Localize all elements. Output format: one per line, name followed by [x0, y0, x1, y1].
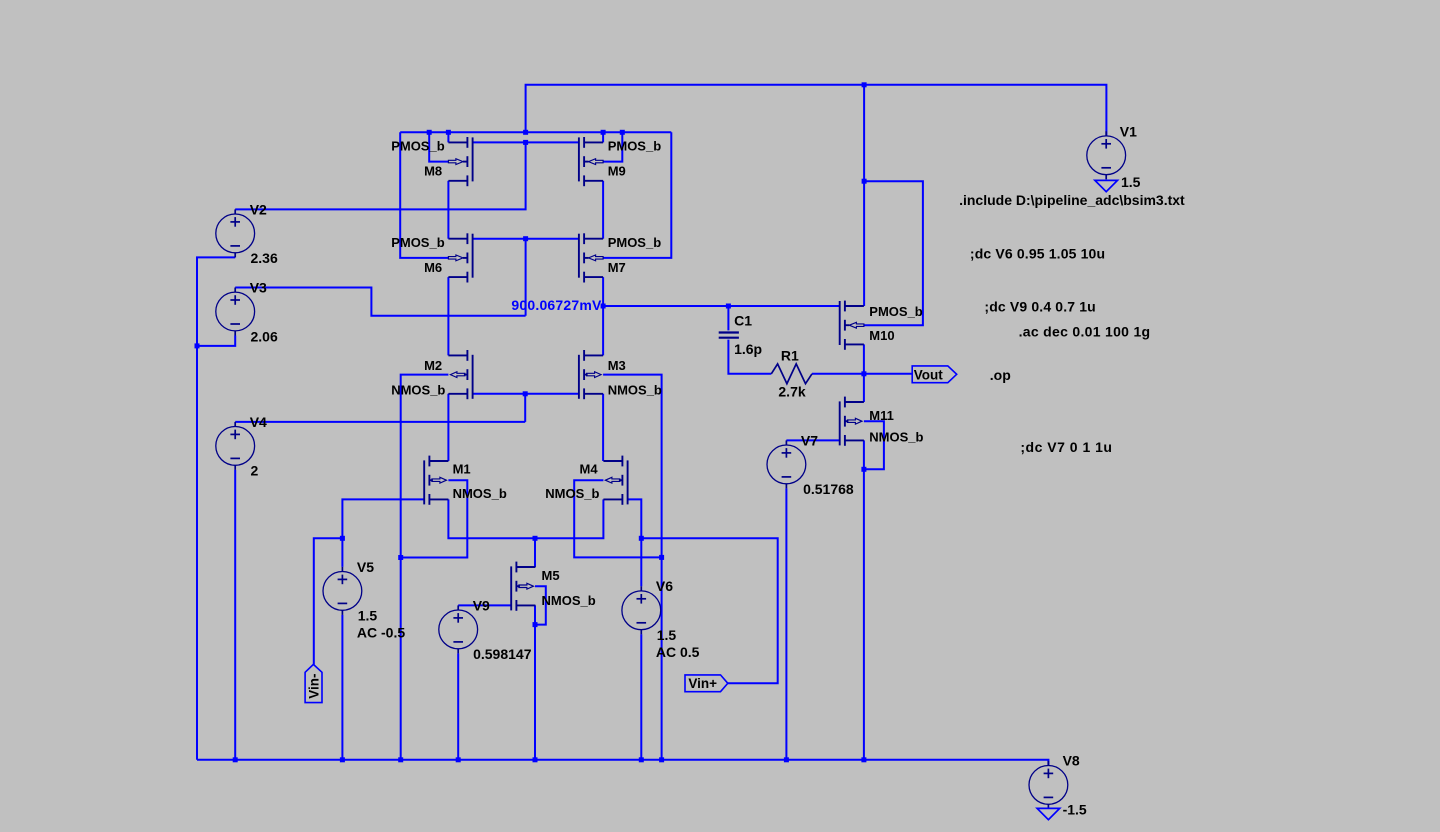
wire M4 bulk loop: [574, 480, 661, 557]
junction tail node M5 drain: [533, 536, 538, 541]
transistor M1 NMOS_b: [424, 456, 448, 505]
wire PMOS source rail: [400, 131, 671, 133]
svg-text:2.36: 2.36: [251, 250, 278, 266]
wire M1 gate to V5/Vin-: [342, 499, 424, 538]
junction ground rail at V5: [340, 757, 345, 762]
junction V3 bottom at left vertical: [195, 343, 200, 348]
svg-text:M2: M2: [424, 358, 442, 373]
voltage source V8: [1029, 761, 1068, 809]
wire C1 top lead: [727, 306, 729, 330]
voltage source V9: [439, 605, 478, 653]
wire M9 source drop: [602, 132, 604, 142]
svg-text:M1: M1: [453, 461, 471, 476]
svg-text:1.5: 1.5: [1121, 174, 1141, 190]
port Vout: [912, 366, 957, 383]
wire M7 bulk from rail right side: [603, 132, 671, 258]
wire M10 drain to Vout node: [863, 344, 865, 373]
svg-text:M7: M7: [608, 260, 626, 275]
junction M1 gate / V5 / Vin-: [340, 536, 345, 541]
svg-text:R1: R1: [781, 347, 799, 363]
svg-text:M11: M11: [869, 408, 894, 423]
wire V7 bottom: [785, 488, 787, 759]
junction M4 gate / V6 / Vin+: [639, 536, 644, 541]
wire M2 bulk down: [401, 375, 449, 760]
svg-text:Vout: Vout: [914, 367, 943, 382]
wire M4 source to tail node: [535, 499, 603, 538]
svg-text:NMOS_b: NMOS_b: [542, 593, 596, 608]
svg-text:.op: .op: [990, 367, 1011, 383]
wire to Vin+ port: [641, 538, 777, 683]
wire V5 bottom: [341, 615, 343, 760]
transistor M4 NMOS_b: [603, 456, 627, 505]
svg-text:PMOS_b: PMOS_b: [608, 139, 662, 154]
svg-text:M10: M10: [869, 328, 894, 343]
wire to Vin- port: [314, 538, 343, 664]
svg-text:V6: V6: [656, 578, 673, 594]
wire R1 to Vout node: [812, 373, 864, 375]
wire ground rail bottom: [197, 760, 1048, 766]
wire M1 bulk loop: [401, 480, 468, 557]
wire M8 drain to M6 source: [447, 181, 449, 239]
svg-text:V1: V1: [1120, 124, 1137, 140]
port Vin-: [305, 664, 322, 702]
wire M9 bulk connection: [603, 132, 622, 161]
transistor M8 PMOS_b: [448, 137, 472, 186]
wire M6-M7 gate rail: [473, 238, 579, 240]
ground symbol V8: [1037, 808, 1060, 819]
wire V4 to M2/M3 gates: [235, 421, 525, 423]
junction node 900mV at M7/M3 column: [601, 304, 606, 309]
wire VDD top rail from internal rail tap to V1: [526, 85, 1107, 136]
wire M6 bulk from rail left side: [400, 132, 448, 258]
wire M3 bulk down right side: [603, 375, 662, 760]
junction M2 bulk / M1 bulk / rail drop: [398, 555, 403, 560]
transistor M5 NMOS_b: [511, 562, 535, 611]
wire M11 source down to rail: [863, 440, 865, 759]
wire V2 bottom to left vertical: [197, 257, 235, 759]
svg-text:PMOS_b: PMOS_b: [391, 235, 445, 250]
junction Vout node: [861, 371, 866, 376]
port Vin+: [685, 675, 728, 692]
transistor M11 NMOS_b: [840, 397, 864, 446]
svg-text:-1.5: -1.5: [1063, 802, 1087, 818]
svg-text:M4: M4: [580, 461, 599, 476]
wire V3 tap down: [525, 239, 527, 316]
voltage source V3: [216, 288, 255, 336]
junction ground rail at V4: [233, 757, 238, 762]
svg-text:;dc V9 0.4 0.7 1u: ;dc V9 0.4 0.7 1u: [984, 299, 1096, 315]
voltage source V5: [323, 567, 362, 615]
wire M5 drain up to tail node: [534, 538, 536, 567]
wire V6 bottom: [640, 634, 642, 760]
svg-text:2.06: 2.06: [251, 328, 278, 344]
junction top rail to M10 branch: [862, 82, 867, 87]
wire M3 source to M4 drain: [602, 394, 604, 461]
svg-text:NMOS_b: NMOS_b: [545, 486, 599, 501]
voltage source V2: [216, 209, 255, 257]
junction M8 bulk at rail: [427, 130, 432, 135]
svg-text:V8: V8: [1063, 752, 1080, 768]
transistor M7 PMOS_b: [579, 233, 603, 282]
junction ground rail at V7: [784, 757, 789, 762]
svg-text:V3: V3: [250, 279, 267, 295]
wire V3 to M6/M7 gates: [235, 288, 525, 316]
junction ground rail at M11: [861, 757, 866, 762]
svg-text:V7: V7: [801, 432, 818, 448]
svg-text:AC -0.5: AC -0.5: [357, 625, 405, 641]
junction ground rail at V9: [456, 757, 461, 762]
svg-text:.include D:\pipeline_adc\bsim3: .include D:\pipeline_adc\bsim3.txt: [959, 192, 1185, 208]
svg-text:NMOS_b: NMOS_b: [391, 383, 445, 398]
junction gate rail V4 tap: [523, 391, 528, 396]
voltage source V7: [767, 440, 806, 488]
svg-text:1.5: 1.5: [358, 608, 378, 624]
junction gate rail V3 tap: [523, 236, 528, 241]
svg-text:PMOS_b: PMOS_b: [608, 235, 662, 250]
wire M10 supply branch down from top rail: [863, 85, 865, 306]
wire M7 drain to M3 drain: [602, 277, 604, 355]
transistor M2 NMOS_b: [448, 350, 472, 399]
wire V9 bottom: [457, 653, 459, 759]
svg-text:M9: M9: [608, 164, 626, 179]
svg-text:Vin-: Vin-: [307, 674, 322, 699]
transistor M3 NMOS_b: [579, 350, 603, 399]
svg-text:;dc V6 0.95 1.05 10u: ;dc V6 0.95 1.05 10u: [970, 245, 1105, 261]
wire M6 drain to M2 drain: [447, 277, 449, 355]
wire V4 bottom to ground rail: [234, 470, 236, 760]
wire output node to M10 gate: [603, 305, 840, 307]
svg-text:NMOS_b: NMOS_b: [608, 383, 662, 398]
wire V6 top: [640, 538, 642, 586]
junction M4 bulk join: [659, 555, 664, 560]
svg-text:0.51768: 0.51768: [803, 481, 854, 497]
junction C1 tap on node wire: [726, 304, 731, 309]
svg-text:V5: V5: [357, 559, 374, 575]
svg-text:V4: V4: [250, 414, 267, 430]
wire M11 drain to Vout node: [863, 374, 865, 402]
svg-text:.ac dec 0.01 100 1g: .ac dec 0.01 100 1g: [1019, 324, 1151, 340]
svg-text:M6: M6: [424, 260, 442, 275]
svg-text:PMOS_b: PMOS_b: [391, 139, 445, 154]
svg-text:1.5: 1.5: [657, 627, 677, 643]
resistor R1: [771, 364, 812, 384]
wire Vout node to port: [864, 373, 913, 375]
svg-text:2: 2: [251, 463, 259, 479]
svg-text:1.6p: 1.6p: [734, 341, 762, 357]
transistor M9 PMOS_b: [579, 137, 603, 186]
wire M2 source to M1 drain: [447, 394, 449, 461]
voltage source V6: [622, 586, 661, 634]
svg-text:M3: M3: [608, 358, 626, 373]
junction ground rail at M3 bulk: [659, 757, 664, 762]
voltage source V1: [1087, 131, 1126, 179]
wire V4 tap down: [524, 394, 526, 422]
svg-text:M5: M5: [542, 568, 560, 583]
junction M9 source at rail: [601, 130, 606, 135]
svg-text:AC 0.5: AC 0.5: [656, 644, 700, 660]
junction M9 bulk at rail: [620, 130, 625, 135]
junction M11 bulk join: [861, 467, 866, 472]
voltage source V4: [216, 422, 255, 470]
transistor M10 PMOS_b: [840, 301, 864, 350]
wire V2 to M8/M9 gates: [235, 142, 525, 209]
wire M8-M9 gate rail: [473, 141, 579, 143]
junction M5 source/bulk: [533, 622, 538, 627]
junction ground rail at M5: [533, 757, 538, 762]
svg-text:;dc V7 0 1 1u: ;dc V7 0 1 1u: [1020, 439, 1112, 455]
ground symbol V1: [1095, 180, 1118, 191]
wire M5 source down to rail: [534, 605, 536, 759]
junction M10 bulk loop top: [862, 179, 867, 184]
wire M10 bulk loop: [864, 181, 923, 325]
wire V5 top: [341, 538, 343, 567]
svg-text:C1: C1: [734, 313, 752, 329]
junction gate rail V2 tap: [523, 140, 528, 145]
wire M4 gate to V6/Vin+: [627, 499, 641, 538]
svg-text:M8: M8: [424, 164, 442, 179]
junction M8 source at rail: [446, 130, 451, 135]
svg-text:NMOS_b: NMOS_b: [869, 430, 923, 445]
svg-text:900.06727mV: 900.06727mV: [511, 297, 602, 313]
wire M8 bulk connection: [429, 132, 448, 161]
wire M2-M3 gate rail: [473, 393, 579, 395]
wire M5 gate to V9: [458, 604, 511, 606]
svg-text:PMOS_b: PMOS_b: [869, 304, 923, 319]
capacitor C1: [719, 333, 739, 338]
wire M1 source down to tail node: [448, 499, 535, 538]
svg-text:V9: V9: [473, 597, 490, 613]
transistor M6 PMOS_b: [448, 233, 472, 282]
wire M11 bulk loop: [864, 421, 884, 469]
wire M9 drain to M7 source: [602, 181, 604, 239]
svg-text:V2: V2: [250, 201, 267, 217]
svg-text:NMOS_b: NMOS_b: [453, 486, 507, 501]
svg-text:Vin+: Vin+: [688, 676, 717, 691]
wire M11 gate to V7: [786, 439, 840, 441]
wire M8 source drop: [447, 132, 449, 142]
junction ground rail at M2 bulk: [398, 757, 403, 762]
svg-text:0.598147: 0.598147: [473, 646, 532, 662]
wire V3 bottom: [197, 336, 235, 346]
junction VDD tap at rail: [523, 130, 528, 135]
svg-text:2.7k: 2.7k: [778, 383, 805, 399]
wire C1 bottom lead to R1: [728, 340, 771, 374]
wire M5 bulk loop: [535, 586, 546, 624]
junction ground rail at V6: [639, 757, 644, 762]
